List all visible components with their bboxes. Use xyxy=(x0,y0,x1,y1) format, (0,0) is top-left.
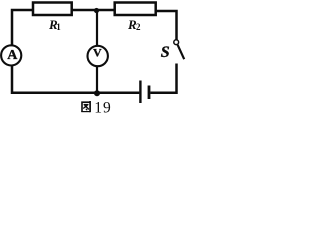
ammeter A xyxy=(1,45,21,65)
svg-text:19: 19 xyxy=(94,99,112,116)
svg-text:S: S xyxy=(161,44,170,61)
wire R2 to switch xyxy=(156,11,177,40)
wire top-left (from left branch up and across to R1) xyxy=(12,10,33,46)
switch S pivot circle xyxy=(174,40,179,45)
wire voltmeter branch top xyxy=(96,11,98,47)
wire R1 to R2 xyxy=(72,9,114,12)
svg-text:1: 1 xyxy=(56,22,61,32)
battery short plate xyxy=(148,86,151,100)
svg-text:V: V xyxy=(93,46,102,60)
battery long plate xyxy=(139,81,141,104)
switch S blade xyxy=(178,45,185,59)
wire battery to bottom-left corner and up to ammeter xyxy=(12,66,139,93)
svg-text:2: 2 xyxy=(136,22,141,32)
svg-text:A: A xyxy=(7,48,18,63)
node junction bottom (voltmeter to bottom wire) xyxy=(94,90,100,96)
resistor R2 xyxy=(115,3,156,16)
resistor R1 xyxy=(33,3,72,16)
wire switch lower terminal to bottom-right corner xyxy=(150,64,176,93)
node junction top (between R1 and R2) xyxy=(94,8,99,13)
wire voltmeter branch bottom xyxy=(96,66,98,93)
voltmeter V xyxy=(88,46,108,66)
caption: character 图 drawn as strokes xyxy=(81,101,90,112)
